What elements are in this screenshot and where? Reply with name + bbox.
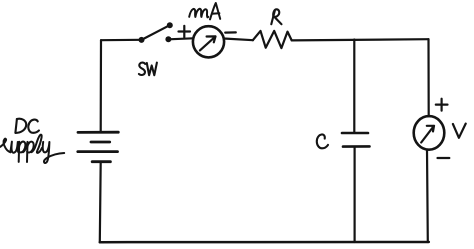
wire bottom horizontal	[100, 241, 429, 244]
wire top-left horizontal (corner to switch)	[101, 39, 141, 42]
battery long plate 3	[78, 150, 118, 153]
label SW	[139, 63, 157, 76]
label R	[271, 9, 281, 24]
resistor R1 zigzag	[253, 31, 292, 48]
switch blade tip dot	[167, 22, 173, 28]
voltmeter needle arrow	[421, 126, 434, 143]
label supply (hand-drawn cursive)	[0, 135, 64, 163]
wire left vertical lower (battery to bottom wire)	[99, 162, 102, 243]
switch blade	[142, 25, 170, 40]
capacitor C1 top plate	[342, 132, 368, 135]
label DC	[15, 119, 39, 133]
label mA	[189, 3, 220, 19]
label C	[317, 134, 328, 148]
wire right vertical upper (corner to voltmeter)	[427, 39, 429, 116]
switch SW pivot dot	[139, 37, 145, 43]
ammeter minus sign	[225, 31, 236, 33]
wire left vertical upper (corner to battery top plate)	[100, 40, 103, 132]
label V	[453, 124, 466, 138]
wire voltmeter to bottom-right corner	[426, 150, 429, 242]
capacitor C1 bottom plate	[343, 145, 370, 148]
voltmeter circle U2	[414, 116, 445, 150]
ammeter plus sign	[179, 26, 191, 38]
battery short plate 2	[91, 141, 110, 144]
ammeter needle arrow	[200, 36, 216, 50]
voltmeter minus sign	[438, 157, 450, 159]
wire ammeter to resistor	[224, 39, 253, 41]
wire switch to ammeter	[168, 38, 193, 39]
voltmeter plus sign	[436, 99, 448, 111]
wire capacitor branch upper vertical	[353, 40, 355, 133]
wire capacitor branch lower vertical	[354, 147, 356, 242]
battery B1 top long plate	[78, 131, 118, 134]
battery bottom short plate	[92, 160, 110, 163]
wire resistor to right corner	[292, 39, 429, 40]
switch fixed contact dot	[165, 36, 171, 42]
ammeter meter circle U1	[193, 26, 224, 57]
